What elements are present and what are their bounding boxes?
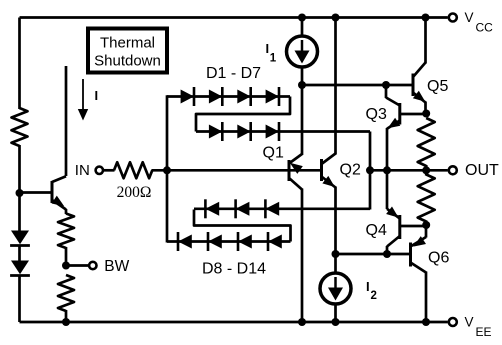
svg-text:V: V xyxy=(465,10,474,25)
svg-text:EE: EE xyxy=(476,325,492,339)
label Q6 xyxy=(428,250,449,267)
label I xyxy=(95,88,99,103)
VEE terminal xyxy=(449,318,457,326)
wire input node to Q1 Q2 bases xyxy=(152,169,322,172)
wire resistor to VEE rail xyxy=(65,310,68,322)
wire node B to I2 xyxy=(334,254,337,274)
wire left drop from VCC rail xyxy=(18,18,21,110)
wire Q2 collector to VCC rail xyxy=(334,18,337,155)
node bias VEE junction xyxy=(62,318,70,326)
svg-text:CC: CC xyxy=(476,21,494,35)
node Q5 emitter junction xyxy=(422,110,430,118)
wire Q5 emitter down xyxy=(424,102,427,115)
wire VCC top rail xyxy=(20,16,448,19)
wire VEE bottom rail xyxy=(20,321,448,324)
resistor R-bottom xyxy=(418,175,435,222)
net label VCC xyxy=(465,10,494,35)
svg-text:Q3: Q3 xyxy=(366,106,387,123)
node I1 VCC junction xyxy=(298,14,306,22)
wire Q1 collector to VEE rail xyxy=(301,189,304,323)
svg-text:I: I xyxy=(95,88,99,103)
wire Q3 base to R junction xyxy=(401,113,426,116)
wire Q1 emitter to node A xyxy=(301,85,304,155)
wire left diodes to VEE rail xyxy=(18,276,21,323)
diode D1 xyxy=(181,87,194,106)
current source I2 xyxy=(320,273,351,304)
node input junction xyxy=(163,166,171,174)
diode D12 xyxy=(205,199,219,218)
transistor Q1 xyxy=(289,154,303,190)
wire BW stub xyxy=(66,264,89,267)
diode D10 xyxy=(238,232,252,251)
transistor Q5 xyxy=(413,63,426,103)
svg-text:D8 - D14: D8 - D14 xyxy=(202,261,266,278)
wire D1-D7 row1 xyxy=(167,95,290,98)
node Q3 collector on node A xyxy=(382,81,390,89)
label Q3 xyxy=(366,106,387,123)
svg-text:1: 1 xyxy=(270,53,277,65)
resistor R-top xyxy=(418,118,435,166)
svg-text:IN: IN xyxy=(75,162,90,179)
net label VEE xyxy=(465,315,492,340)
svg-text:2: 2 xyxy=(371,290,377,302)
label 200ohm xyxy=(117,184,152,201)
label D1 - D7 xyxy=(206,65,261,82)
label Thermal Shutdown xyxy=(94,35,161,70)
label IN xyxy=(75,162,90,179)
wire IN to R200 xyxy=(104,169,115,172)
node Q6 collector VEE junction xyxy=(422,318,430,326)
transistor Q6 xyxy=(411,236,427,272)
IN terminal xyxy=(96,167,103,174)
node Q1 collector VEE junction xyxy=(298,318,306,326)
svg-text:Q5: Q5 xyxy=(427,78,448,95)
transistor Q4 xyxy=(386,207,400,247)
wire Q-thermal emitter xyxy=(65,209,68,214)
diode D11 xyxy=(268,232,282,251)
resistor R-left xyxy=(12,108,28,146)
diode D-left-1 xyxy=(10,231,30,246)
transistor Q2 xyxy=(322,154,336,188)
label Q1 xyxy=(263,145,284,162)
resistor R-bias-upper xyxy=(58,214,74,249)
transistor Q-thermal base wire xyxy=(20,191,51,194)
svg-text:Thermal: Thermal xyxy=(100,35,155,52)
wire Q6 collector to VEE rail xyxy=(425,272,428,323)
wire resistor to BW node xyxy=(65,247,68,266)
diode D8 xyxy=(178,232,192,251)
label I2 xyxy=(366,279,377,302)
svg-text:V: V xyxy=(465,315,474,330)
wire Q3 collector xyxy=(386,85,400,106)
wire Q5 collector to VCC rail xyxy=(424,18,427,64)
current source I1 xyxy=(287,36,318,67)
thermal shutdown box xyxy=(88,29,167,73)
label D8 - D14 xyxy=(202,261,266,278)
wire input node down xyxy=(166,170,169,242)
label OUT xyxy=(465,162,499,179)
diode D14 xyxy=(265,199,279,218)
diode D5 xyxy=(209,122,222,141)
wire I2 to VEE rail xyxy=(334,304,337,323)
resistor 200ohm xyxy=(114,162,152,178)
wire VCC to I1 xyxy=(301,18,304,37)
node Q4 collector junction xyxy=(383,250,391,258)
node R-bottom junction xyxy=(422,221,430,229)
node Q3 Q4 emitter OUT junction xyxy=(383,166,391,174)
diode D7 xyxy=(266,122,279,141)
node Q5 collector VCC junction xyxy=(422,14,430,22)
node diode-string OUT junction xyxy=(366,166,374,174)
wire D8-D14 lower row xyxy=(167,240,291,243)
wire node A to Q5 base xyxy=(302,84,412,87)
node B xyxy=(332,250,340,258)
wire diode strings vertical to OUT xyxy=(369,132,372,210)
BW terminal xyxy=(89,262,96,269)
node base of thermal transistor xyxy=(16,189,24,197)
wire Q4 collector to node B xyxy=(386,246,389,254)
OUT terminal xyxy=(449,166,457,174)
node resistor OUT junction xyxy=(422,166,430,174)
VCC terminal xyxy=(449,14,457,22)
diode D6 xyxy=(237,122,250,141)
resistor R-bias-lower xyxy=(58,275,74,311)
wire Q4 emitter from OUT xyxy=(386,170,389,209)
node BW junction xyxy=(62,262,70,270)
wire I1 to node A xyxy=(301,67,304,86)
wire left resistor to base node xyxy=(18,145,21,231)
wire R-bottom stub xyxy=(425,170,428,225)
diode D-left-2 xyxy=(10,261,30,276)
svg-text:I: I xyxy=(266,41,270,56)
label BW xyxy=(104,258,129,275)
svg-text:OUT: OUT xyxy=(465,162,499,179)
svg-text:I: I xyxy=(366,279,370,294)
svg-text:Q4: Q4 xyxy=(366,222,387,239)
wire Q3 emitter to OUT line xyxy=(386,128,389,170)
label Q4 xyxy=(366,222,387,239)
diode D9 xyxy=(208,232,222,251)
svg-text:200Ω: 200Ω xyxy=(117,184,152,201)
svg-text:BW: BW xyxy=(104,258,129,275)
wire node B to Q6 base xyxy=(336,253,410,256)
wire D1-D7 row2 to OUT drop xyxy=(196,130,370,133)
wire thermal line xyxy=(65,66,68,176)
transistor Q-thermal xyxy=(52,176,66,209)
svg-text:Shutdown: Shutdown xyxy=(94,53,161,70)
label Q5 xyxy=(427,78,448,95)
diode D4 xyxy=(266,87,279,106)
transistor Q3 xyxy=(387,103,400,129)
diode D13 xyxy=(236,199,250,218)
wire Q2 emitter to node B xyxy=(334,187,337,255)
svg-text:Q6: Q6 xyxy=(428,250,449,267)
node A xyxy=(298,81,306,89)
diode D2 xyxy=(209,87,222,106)
wire D1-D7 S-connector xyxy=(196,97,290,132)
label I1 xyxy=(266,41,277,65)
node Q2 collector VCC junction xyxy=(332,14,340,22)
current arrow I xyxy=(78,79,88,121)
diode D3 xyxy=(237,87,250,106)
wire Q6 emitter to R junction xyxy=(425,228,428,238)
node I2 VEE junction xyxy=(332,318,340,326)
wire OUT line xyxy=(370,169,448,172)
label Q2 xyxy=(340,162,361,179)
svg-text:D1 - D7: D1 - D7 xyxy=(206,65,261,82)
svg-text:Q2: Q2 xyxy=(340,162,361,179)
wire input node up xyxy=(166,95,169,170)
svg-text:Q1: Q1 xyxy=(263,145,284,162)
wire D8-D14 S-connector xyxy=(194,210,291,242)
wire R-top to OUT line xyxy=(425,165,428,170)
wire D8-D14 upper row xyxy=(194,207,370,210)
wire Q4 base to R junction xyxy=(401,225,426,228)
wire between left diodes xyxy=(18,246,21,261)
